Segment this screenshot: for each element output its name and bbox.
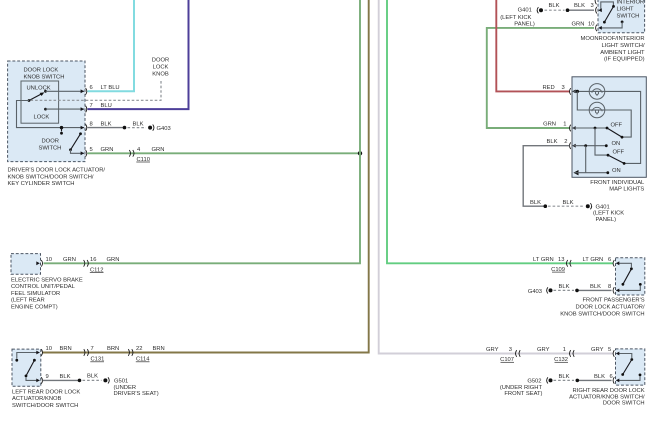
left rear door lock box <box>12 349 41 386</box>
svg-text:LOCK: LOCK <box>153 65 169 71</box>
svg-text:BLK: BLK <box>574 3 585 9</box>
left rear switch wires <box>15 353 39 381</box>
knob switch inner box <box>21 81 59 123</box>
wire GRY vertical trunk <box>379 0 614 354</box>
right rear caption <box>569 388 645 407</box>
svg-text:LEFT REAR DOOR LOCK: LEFT REAR DOOR LOCK <box>12 389 80 395</box>
driver block caption <box>8 168 106 188</box>
svg-text:16: 16 <box>90 257 96 263</box>
svg-text:(LEFT REAR: (LEFT REAR <box>11 298 45 304</box>
svg-text:RIGHT REAR DOOR LOCK: RIGHT REAR DOOR LOCK <box>573 388 645 394</box>
svg-text:DOOR: DOOR <box>152 58 169 64</box>
svg-text:8: 8 <box>608 284 611 290</box>
left rear pin 9 <box>36 374 48 384</box>
svg-text:G403: G403 <box>528 289 542 295</box>
svg-text:DRIVER'S SEAT): DRIVER'S SEAT) <box>114 391 159 397</box>
svg-text:7: 7 <box>90 103 93 109</box>
unlock contact and wire to pin 6 <box>44 90 84 93</box>
door switch blade <box>69 132 82 151</box>
door switch wire to pin 5 <box>71 150 85 154</box>
wire BLK from pin 8 <box>88 121 147 129</box>
map ON contacts <box>574 141 621 174</box>
interior switch internals <box>601 2 624 28</box>
svg-text:BLK: BLK <box>549 3 560 9</box>
svg-text:1: 1 <box>563 121 566 127</box>
electric servo brake box <box>11 254 41 275</box>
svg-text:GRN: GRN <box>63 257 76 263</box>
svg-text:BLK: BLK <box>133 121 144 127</box>
front individual map lights box <box>572 77 646 178</box>
wire BRN vertical trunk <box>43 0 369 353</box>
svg-text:BLK: BLK <box>559 284 570 290</box>
interior pin 3 <box>591 3 602 14</box>
svg-text:KNOB: KNOB <box>152 71 169 77</box>
svg-text:LT BLU: LT BLU <box>101 85 120 91</box>
svg-text:BLK: BLK <box>60 374 71 380</box>
svg-text:BRN: BRN <box>60 346 72 352</box>
svg-text:ACTUATOR/KNOB: ACTUATOR/KNOB <box>12 396 62 402</box>
left rear pin 10 <box>36 346 52 356</box>
svg-text:AMBIENT LIGHT: AMBIENT LIGHT <box>600 50 645 56</box>
svg-text:G502: G502 <box>527 379 541 385</box>
ground G401 top <box>500 7 543 27</box>
wire BLK interior pin 3 <box>545 3 595 12</box>
svg-text:GRN: GRN <box>107 257 120 263</box>
svg-text:6: 6 <box>608 257 611 263</box>
front passenger caption <box>560 298 645 318</box>
svg-text:DRIVER'S DOOR LOCK ACTUATOR/: DRIVER'S DOOR LOCK ACTUATOR/ <box>8 168 106 174</box>
svg-text:MOONROOF/INTERIOR: MOONROOF/INTERIOR <box>581 36 645 42</box>
svg-text:GRY: GRY <box>591 347 604 353</box>
svg-text:LT GRN: LT GRN <box>583 257 604 263</box>
svg-text:8: 8 <box>90 121 93 127</box>
node GRN junction <box>358 151 362 155</box>
svg-text:G501: G501 <box>114 379 128 385</box>
svg-text:DOOR: DOOR <box>42 139 59 145</box>
map lamp wiring <box>574 90 641 164</box>
wire RED to map pin 3 <box>496 0 569 91</box>
svg-text:3: 3 <box>591 3 594 9</box>
svg-text:BLK: BLK <box>101 121 112 127</box>
svg-text:PANEL): PANEL) <box>514 21 535 27</box>
map switch 1 <box>574 122 624 138</box>
wire BRN labels and connectors <box>60 346 165 362</box>
map pin 3 <box>570 88 576 95</box>
svg-text:5: 5 <box>90 147 93 153</box>
svg-text:UNLOCK: UNLOCK <box>27 86 51 92</box>
svg-text:RED: RED <box>543 85 555 91</box>
svg-text:BLU: BLU <box>101 103 112 109</box>
pin 5 <box>81 147 93 157</box>
svg-text:DOOR SWITCH: DOOR SWITCH <box>603 401 645 407</box>
svg-text:10: 10 <box>46 346 52 352</box>
moonroof caption <box>581 36 646 63</box>
wire GRN from pin 5 to junction <box>88 147 361 153</box>
svg-text:FEEL SIMULATOR: FEEL SIMULATOR <box>11 291 60 297</box>
svg-text:G401: G401 <box>596 204 610 210</box>
map pin 4 arrow <box>573 170 578 175</box>
connector C112 <box>84 257 120 273</box>
svg-text:CONTROL UNIT/PEDAL: CONTROL UNIT/PEDAL <box>11 284 76 290</box>
svg-text:PANEL): PANEL) <box>596 217 617 223</box>
front passenger switch <box>617 263 642 290</box>
svg-text:GRN: GRN <box>543 121 556 127</box>
svg-text:GRN: GRN <box>572 21 585 27</box>
svg-text:KNOB SWITCH/DOOR SWITCH: KNOB SWITCH/DOOR SWITCH <box>560 312 644 318</box>
lamp 2 <box>589 102 605 118</box>
door switch contact on blk line <box>60 126 63 135</box>
knob switch common wire to pin 8 <box>17 101 85 128</box>
front passenger box <box>616 258 645 295</box>
wire LT GRN labels and C109 <box>533 257 611 273</box>
svg-text:FRONT SEAT): FRONT SEAT) <box>504 391 542 397</box>
svg-text:10: 10 <box>46 257 52 263</box>
lock contact and wire to pin 7 <box>44 108 84 111</box>
wire BLK right rear pin 6 <box>554 374 613 382</box>
interior pin top cut <box>595 0 596 4</box>
svg-text:FRONT INDIVIDUAL: FRONT INDIVIDUAL <box>590 180 645 186</box>
ground G502 <box>500 377 553 397</box>
svg-text:9: 9 <box>46 374 49 380</box>
door switch label <box>39 139 62 152</box>
svg-text:DOOR LOCK: DOOR LOCK <box>24 68 59 74</box>
right rear pin 6 <box>613 377 619 384</box>
svg-text:(UNDER: (UNDER <box>114 385 137 391</box>
svg-text:(LEFT KICK: (LEFT KICK <box>593 211 624 217</box>
front passenger pin 6 <box>613 260 619 267</box>
map switch 2 <box>595 128 625 165</box>
svg-text:SWITCH: SWITCH <box>617 14 640 20</box>
svg-text:ON: ON <box>612 141 621 147</box>
svg-text:BRN: BRN <box>107 346 119 352</box>
svg-text:GRN: GRN <box>101 147 114 153</box>
pin 6 <box>81 85 93 95</box>
svg-text:INTERIOR: INTERIOR <box>617 0 645 6</box>
servo pin 10 <box>36 257 76 267</box>
right rear switch <box>617 354 642 381</box>
svg-text:BLK: BLK <box>547 139 558 145</box>
svg-text:(IF EQUIPPED): (IF EQUIPPED) <box>604 57 645 63</box>
svg-text:2: 2 <box>564 139 567 145</box>
ground G501 <box>103 377 158 397</box>
wire BLK map pin 2 to G401 <box>523 146 584 208</box>
svg-text:BLK: BLK <box>563 200 574 206</box>
left rear caption <box>12 389 80 409</box>
svg-text:BLK: BLK <box>594 374 605 380</box>
svg-text:1: 1 <box>563 347 566 353</box>
servo caption <box>11 277 83 310</box>
svg-text:(UNDER RIGHT: (UNDER RIGHT <box>500 385 543 391</box>
svg-text:ACTUATOR/KNOB SWITCH/: ACTUATOR/KNOB SWITCH/ <box>569 394 645 400</box>
pin 8 <box>81 121 93 131</box>
svg-text:6: 6 <box>610 374 613 380</box>
svg-text:GRY: GRY <box>486 347 499 353</box>
connector C110 <box>129 150 150 163</box>
svg-text:ELECTRIC SERVO BRAKE: ELECTRIC SERVO BRAKE <box>11 277 83 283</box>
svg-text:FRONT PASSENGER'S: FRONT PASSENGER'S <box>583 298 645 304</box>
map pin 1 <box>543 121 576 131</box>
knob switch blade <box>28 92 45 102</box>
map lights caption <box>590 180 645 193</box>
svg-text:LIGHT: LIGHT <box>617 7 635 13</box>
lamp 1 <box>589 84 605 100</box>
interior light switch box <box>598 0 645 33</box>
interior pin 10 <box>596 25 602 32</box>
svg-text:13: 13 <box>558 257 564 263</box>
ground G403 passenger <box>528 287 553 295</box>
svg-text:10: 10 <box>588 21 594 27</box>
svg-text:SWITCH: SWITCH <box>39 146 62 152</box>
svg-text:BRN: BRN <box>153 346 165 352</box>
svg-text:KNOB SWITCH/DOOR SWITCH/: KNOB SWITCH/DOOR SWITCH/ <box>8 174 94 180</box>
svg-text:22: 22 <box>136 346 142 352</box>
pin 7 <box>81 103 93 113</box>
svg-text:BLK: BLK <box>530 200 541 206</box>
wire BLK passenger pin 8 <box>554 284 612 292</box>
svg-text:3: 3 <box>509 347 512 353</box>
svg-text:(LEFT KICK: (LEFT KICK <box>500 15 531 21</box>
svg-text:GRN: GRN <box>152 147 165 153</box>
svg-text:3: 3 <box>562 85 565 91</box>
svg-text:LT GRN: LT GRN <box>533 257 554 263</box>
svg-text:KNOB SWITCH: KNOB SWITCH <box>24 75 65 81</box>
driver door lock actuator box <box>8 61 85 162</box>
svg-text:BLK: BLK <box>590 284 601 290</box>
wire LT BLU from pin 6 <box>88 0 135 91</box>
map pin 2 <box>547 139 576 149</box>
wire GRN vertical trunk <box>44 0 361 263</box>
svg-text:6: 6 <box>90 85 93 91</box>
svg-text:LOCK: LOCK <box>34 115 50 121</box>
svg-text:7: 7 <box>91 346 94 352</box>
svg-text:DOOR LOCK ACTUATOR/: DOOR LOCK ACTUATOR/ <box>576 305 645 311</box>
wire GRN interior pin 10 to map pin 1 <box>487 21 595 128</box>
svg-text:5: 5 <box>608 347 611 353</box>
ground G401 bottom <box>586 203 624 223</box>
svg-text:G403: G403 <box>157 126 171 132</box>
svg-text:ON: ON <box>612 168 621 174</box>
svg-text:G401: G401 <box>518 8 532 14</box>
svg-text:ENGINE COMPT): ENGINE COMPT) <box>11 305 58 311</box>
svg-text:GRY: GRY <box>537 347 550 353</box>
svg-text:MAP LIGHTS: MAP LIGHTS <box>609 187 644 193</box>
right rear pin 5 <box>613 350 619 357</box>
svg-text:OFF: OFF <box>611 122 623 128</box>
right rear door lock box <box>616 349 645 385</box>
wire GRY labels and connectors <box>486 347 611 363</box>
wire BLK from pin 9 <box>43 374 102 383</box>
svg-text:SWITCH/DOOR SWITCH: SWITCH/DOOR SWITCH <box>12 403 78 409</box>
svg-text:OFF: OFF <box>613 150 625 156</box>
svg-text:BLK: BLK <box>87 374 98 380</box>
front passenger pin 8 <box>613 287 619 294</box>
wire BLU from pin 7 <box>88 0 189 109</box>
ground G403 driver <box>148 125 171 133</box>
svg-text:LIGHT SWITCH/: LIGHT SWITCH/ <box>602 43 645 49</box>
svg-text:BLK: BLK <box>559 374 570 380</box>
door lock knob note leader <box>31 58 170 101</box>
svg-text:KEY CYLINDER SWITCH: KEY CYLINDER SWITCH <box>8 181 75 187</box>
wire LT GRN vertical trunk <box>387 0 614 263</box>
